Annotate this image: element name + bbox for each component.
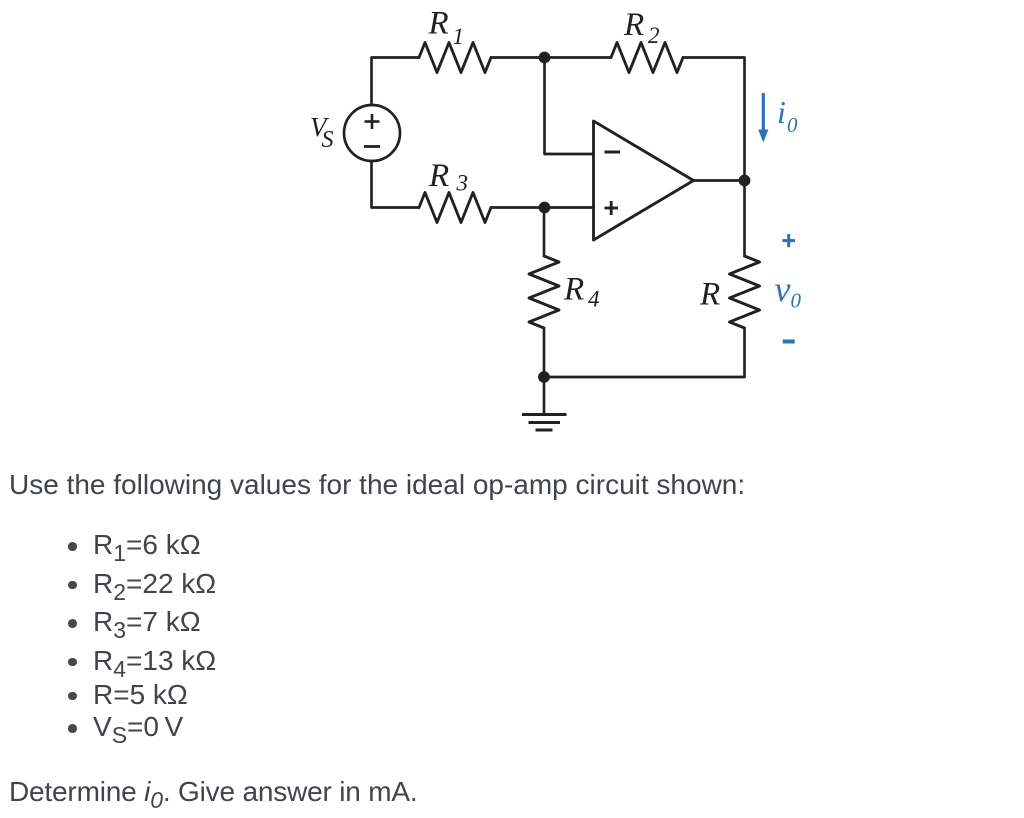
svg-text:R: R xyxy=(563,272,584,308)
label io (blue) xyxy=(777,94,798,137)
wire R top to output node xyxy=(743,181,746,257)
node C junction dot xyxy=(538,371,550,383)
bullet list xyxy=(68,542,77,551)
label R4 xyxy=(563,272,600,312)
op-amp U1 triangle xyxy=(594,121,694,240)
svg-text:1: 1 xyxy=(453,24,465,49)
svg-text:2: 2 xyxy=(648,23,660,48)
label vo (blue) xyxy=(775,269,802,313)
svg-text:3: 3 xyxy=(456,171,469,196)
resistor R4 xyxy=(529,256,559,328)
circuit schematic xyxy=(0,0,1024,460)
label R1 xyxy=(428,6,465,50)
wire R1 to node A and on to R2 xyxy=(491,56,611,59)
ground symbol bars xyxy=(522,415,567,431)
node A junction dot xyxy=(539,52,551,64)
op-amp U1 output wire xyxy=(694,179,745,182)
source Vs minus sign xyxy=(364,145,380,148)
vo plus sign (blue) xyxy=(782,234,795,247)
node B junction dot xyxy=(539,202,551,214)
wire R4 to node C xyxy=(543,328,546,377)
svg-text:0: 0 xyxy=(791,289,802,313)
wire node B down to R4 xyxy=(543,208,546,257)
svg-text:R: R xyxy=(623,7,644,43)
resistor R2 xyxy=(611,43,683,73)
op-amp plus sign xyxy=(605,201,619,215)
wire top-left from source to R1 xyxy=(372,58,420,106)
resistor R3 xyxy=(419,193,491,223)
source Vs circle xyxy=(344,105,400,161)
label R2 xyxy=(623,7,660,48)
wire R2 to right rail corner xyxy=(683,58,745,181)
wire source bottom to R3 xyxy=(372,161,420,208)
ground stub wire xyxy=(543,377,546,414)
wire R3 to node B and op-amp + input xyxy=(491,206,594,209)
label R3 xyxy=(428,158,468,196)
svg-text:4: 4 xyxy=(588,287,600,312)
vo minus sign (blue) xyxy=(783,340,795,344)
current io arrow (blue) xyxy=(758,93,768,143)
svg-text:R: R xyxy=(699,277,720,313)
svg-text:R: R xyxy=(428,158,449,194)
paragraph: question xyxy=(9,778,418,806)
source Vs plus sign xyxy=(365,114,380,129)
wire node A down to op-amp - input xyxy=(545,58,594,155)
label Vs xyxy=(310,112,334,153)
svg-text:v: v xyxy=(775,269,791,309)
svg-text:i: i xyxy=(777,94,786,130)
svg-text:R: R xyxy=(428,6,449,42)
wire bottom rail node C to right xyxy=(544,328,745,377)
paragraph: problem statement xyxy=(9,471,745,499)
resistor R (right) xyxy=(730,256,760,328)
output node junction dot xyxy=(739,175,751,187)
svg-text:0: 0 xyxy=(787,113,798,137)
resistor R1 xyxy=(419,43,491,73)
svg-text:S: S xyxy=(322,127,334,153)
op-amp minus sign xyxy=(605,151,621,154)
